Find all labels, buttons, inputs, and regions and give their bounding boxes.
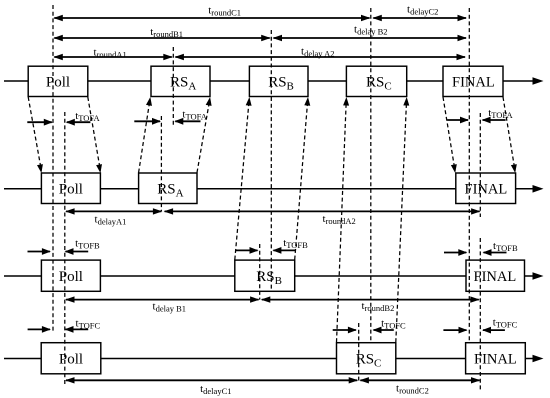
node RS_C RX (anchor): [346, 66, 406, 96]
svg-text:troundB1: troundB1: [150, 26, 183, 39]
TOF marker t_TOFB at FINAL (device B row): [444, 252, 466, 254]
svg-text:tTOFA: tTOFA: [75, 110, 100, 123]
svg-text:tdelay A2: tdelay A2: [301, 46, 335, 59]
svg-text:troundB2: troundB2: [362, 300, 395, 313]
svg-text:troundA1: troundA1: [94, 47, 127, 60]
TOF marker t_TOFB at Poll (device B row): [28, 251, 50, 253]
svg-text:troundC2: troundC2: [396, 383, 429, 396]
node Poll TX (anchor): [28, 66, 88, 96]
TOF marker t_TOFA at RS_A (anchor row): [134, 120, 160, 122]
svg-text:Poll: Poll: [59, 352, 83, 368]
node Poll RX (device C): [41, 343, 101, 374]
dimension arrow t_delayA1: [66, 210, 161, 212]
svg-text:tdelayC2: tdelayC2: [407, 4, 438, 17]
node RS_A RX time marker: [172, 47, 174, 126]
node FINAL RX (device B): [466, 260, 525, 291]
wire RS_A propagation to anchor (left): [139, 99, 150, 172]
wire device B timeline: [4, 275, 535, 277]
svg-text:tTOFA: tTOFA: [182, 109, 207, 122]
wire device A timeline: [4, 188, 535, 190]
node RS_A TX (device A): [139, 173, 197, 204]
svg-text:tdelayA1: tdelayA1: [95, 214, 127, 227]
dimension arrow t_delayB2: [274, 37, 467, 39]
svg-text:tTOFB: tTOFB: [75, 238, 100, 251]
node RS_C TX time marker: [358, 323, 360, 381]
TOF marker t_TOFA at Poll (anchor row): [27, 121, 52, 123]
node RS_B RX (anchor): [249, 66, 308, 96]
node FINAL TX time marker: [468, 8, 470, 343]
node RS_A RX (anchor): [151, 66, 210, 96]
dimension arrow t_roundB2: [262, 299, 479, 301]
svg-text:FINAL: FINAL: [465, 182, 508, 198]
wire RS_B propagation to anchor (left): [235, 99, 249, 259]
svg-text:Poll: Poll: [46, 75, 70, 91]
svg-text:tTOFB: tTOFB: [493, 240, 518, 253]
TOF marker t_TOFA at FINAL (anchor row): [447, 119, 468, 121]
node RS_B TX (device B): [235, 260, 295, 291]
node RS_B RX time marker: [270, 30, 272, 291]
TOF marker t_TOFC at Poll (device C row): [28, 328, 50, 330]
wire device C timeline: [4, 358, 535, 360]
svg-text:troundA2: troundA2: [323, 213, 356, 226]
svg-text:Poll: Poll: [59, 182, 83, 198]
wire FINAL propagation to device A (right): [503, 97, 515, 171]
TOF marker t_TOFC at FINAL (device C row): [443, 329, 466, 331]
node FINAL RX (device A): [456, 173, 516, 204]
svg-text:tTOFC: tTOFC: [381, 318, 406, 331]
svg-text:tTOFB: tTOFB: [283, 237, 308, 250]
dimension arrow t_delayC1: [66, 379, 357, 381]
svg-text:troundC1: troundC1: [208, 5, 241, 18]
node FINAL RX (device C): [466, 343, 526, 374]
svg-text:FINAL: FINAL: [474, 269, 517, 285]
node Poll RX (device A): [41, 173, 100, 204]
dimension arrow t_roundC1: [54, 17, 369, 19]
dimension arrow t_delayA2: [175, 56, 465, 58]
node Poll TX time marker: [52, 5, 54, 332]
svg-text:tTOFC: tTOFC: [76, 317, 101, 330]
TOF marker t_TOFB at RS_B (device B row): [235, 249, 257, 251]
node FINAL RX time marker upper segment: [479, 113, 481, 217]
node RS_C TX (device C): [337, 343, 396, 374]
wire RS_C propagation to anchor (left): [337, 99, 347, 342]
TOF marker t_TOFC at RS_C (device C row): [333, 329, 356, 331]
node RS_C RX time marker: [370, 8, 372, 343]
node Poll RX (device B): [41, 260, 100, 291]
wire RS_B propagation to anchor (right): [295, 99, 308, 259]
svg-text:tTOFA: tTOFA: [488, 107, 513, 120]
node FINAL RX time marker lower segment: [479, 238, 481, 392]
dimension arrow t_roundA1: [54, 56, 172, 58]
wire RS_A propagation to anchor (right): [197, 99, 210, 172]
svg-text:tTOFC: tTOFC: [493, 317, 518, 330]
wire Poll propagation to device A (left): [28, 97, 41, 171]
dimension arrow t_delayC2: [373, 17, 466, 19]
svg-text:Poll: Poll: [59, 269, 83, 285]
dimension arrow t_delayB1: [66, 299, 259, 301]
wire anchor timeline: [4, 80, 535, 82]
svg-text:tdelayC1: tdelayC1: [200, 383, 231, 396]
node RS_B TX time marker: [259, 244, 261, 300]
dimension arrow t_roundB1: [54, 37, 269, 39]
node FINAL TX (anchor): [443, 66, 503, 96]
wire Poll propagation to device A (right): [88, 97, 101, 171]
node RS_A TX time marker: [160, 116, 162, 211]
svg-text:FINAL: FINAL: [452, 75, 495, 91]
svg-text:tdelay B1: tdelay B1: [153, 301, 187, 314]
wire FINAL propagation to device A (left): [443, 97, 455, 171]
dimension arrow t_roundA2: [165, 210, 480, 212]
wire RS_C propagation to anchor (right): [396, 99, 407, 342]
dimension arrow t_roundC2: [360, 379, 479, 381]
node Poll RX time marker at devices: [64, 112, 66, 386]
